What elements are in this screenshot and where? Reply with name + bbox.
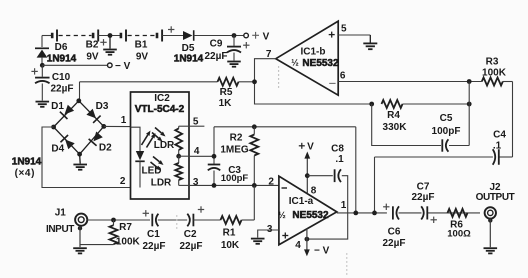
wire B2 internal dashed link	[59, 35, 92, 37]
node ground tap junction	[108, 33, 113, 38]
photoresistor LDR2	[178, 156, 180, 163]
svg-text:R2: R2	[230, 133, 243, 144]
svg-text:VTL-5C4-2: VTL-5C4-2	[135, 104, 185, 115]
capacitor C7	[426, 206, 428, 219]
wire IC1-b pin5 to ground	[338, 34, 370, 36]
svg-text:22µF: 22µF	[180, 241, 203, 252]
svg-text:½: ½	[291, 57, 299, 67]
node R4 left	[369, 102, 374, 107]
label IC1-b plus input	[329, 34, 335, 36]
node R7 junction	[111, 218, 116, 223]
wire bridge edge top-right	[79, 101, 104, 127]
svg-text:100K: 100K	[116, 236, 141, 247]
supply arrow +V pin8	[306, 159, 308, 194]
wire IC2 pin5 stub	[179, 125, 189, 127]
resistor R2	[253, 127, 255, 135]
svg-text:D1: D1	[51, 101, 64, 112]
wire pin5 net line	[214, 126, 356, 128]
svg-text:IC2: IC2	[154, 93, 170, 104]
svg-text:100pF: 100pF	[432, 126, 461, 137]
wire C8 to pin4	[307, 176, 348, 239]
svg-text:IC1-b: IC1-b	[301, 47, 326, 58]
wire R5 line	[80, 81, 218, 83]
diode D2	[93, 132, 102, 142]
svg-text:B1: B1	[135, 40, 148, 51]
svg-text:9V: 9V	[136, 52, 149, 63]
node R2 top	[252, 124, 257, 129]
svg-text:NE5532: NE5532	[302, 58, 339, 69]
svg-text:C4: C4	[493, 129, 506, 140]
svg-text:C9: C9	[210, 39, 223, 50]
svg-text:LDR: LDR	[154, 140, 175, 151]
svg-text:22µF: 22µF	[412, 192, 435, 203]
op-amp IC1-b	[276, 21, 338, 95]
ground C9	[227, 61, 241, 63]
svg-text:10K: 10K	[221, 240, 240, 251]
svg-text:.1: .1	[335, 154, 344, 165]
svg-text:1: 1	[341, 200, 347, 211]
node pin6 R3 junction	[467, 79, 472, 84]
node R5 pin7 junction	[252, 79, 257, 84]
resistor R3	[482, 78, 503, 86]
diode D6	[41, 36, 43, 48]
svg-text:1K: 1K	[219, 98, 233, 109]
capacitor C5	[441, 139, 443, 151]
node output feedback 2	[372, 211, 377, 216]
node D6 C10 junction	[40, 63, 45, 68]
label C7 + polarity	[431, 219, 437, 221]
diode D5	[183, 31, 193, 40]
svg-text:C5: C5	[440, 113, 453, 124]
wire R1 to pin2 node	[242, 219, 255, 221]
wire IC1-b pin7 path	[255, 59, 372, 104]
svg-text:D4: D4	[51, 144, 64, 155]
wire IC1-b pin6 line	[338, 81, 482, 83]
battery B1 cell 1	[120, 33, 123, 39]
svg-text:½: ½	[278, 210, 286, 220]
svg-text:C10: C10	[52, 72, 71, 83]
wire pin5 net to output	[355, 127, 357, 213]
wire bridge left to IC2 pin2 U-path	[42, 127, 131, 188]
supply arrow -V pin4	[306, 228, 308, 249]
resistor R7	[113, 220, 115, 225]
node R4 right	[467, 102, 472, 107]
svg-text:22µF: 22µF	[143, 241, 166, 252]
LED emission arrows	[142, 135, 148, 145]
jack J2	[485, 207, 496, 218]
svg-text:NE5532: NE5532	[292, 210, 329, 221]
diode D1	[65, 105, 75, 115]
label C10 + polarity	[31, 70, 37, 72]
svg-text:C6: C6	[388, 227, 401, 238]
wire pin3 line to IC1-a pin2	[189, 184, 279, 186]
node C3 bottom	[212, 183, 217, 188]
svg-text:R7: R7	[119, 222, 132, 233]
svg-text:R4: R4	[387, 110, 400, 121]
svg-text:2: 2	[120, 176, 126, 187]
wire R4C5 loop	[372, 104, 441, 146]
resistor R4	[382, 100, 403, 108]
battery B2 cell 2	[92, 33, 95, 39]
ground IC1-a pin3	[251, 238, 265, 240]
svg-text:LDR: LDR	[151, 178, 172, 189]
label +V pin8	[299, 145, 305, 147]
capacitor C10	[41, 65, 43, 77]
svg-text:8: 8	[311, 186, 317, 197]
ground battery midpoint	[109, 36, 111, 49]
svg-text:330K: 330K	[383, 122, 408, 133]
capacitor C3	[213, 127, 215, 164]
svg-text:2: 2	[268, 176, 274, 187]
label IC1-b minus input	[329, 82, 335, 84]
node C9 junction	[232, 33, 237, 38]
svg-text:(×4): (×4)	[15, 168, 35, 179]
wire IC2 pin4 stub	[179, 155, 189, 157]
wire IC1-a pin3 to ground	[258, 230, 279, 238]
svg-text:R5: R5	[220, 87, 233, 98]
capacitor C2	[192, 214, 194, 227]
wire LDR2 to pin3	[179, 184, 189, 186]
jack J1	[75, 214, 87, 226]
resistor R6	[448, 209, 468, 217]
node C3 top pin4	[212, 154, 217, 159]
label battery + polarity B1	[168, 29, 174, 31]
label IC1-a minus input	[282, 187, 288, 189]
LED inside IC2	[131, 127, 141, 151]
wire D5 to +V terminal	[194, 35, 244, 37]
battery B2 cell 1	[51, 33, 54, 39]
ground C10	[36, 101, 50, 103]
battery B1 cell 2	[156, 33, 159, 39]
wire bridge top feed	[79, 82, 81, 101]
svg-text:5: 5	[341, 23, 347, 34]
svg-text:− V: − V	[115, 61, 131, 72]
svg-text:3: 3	[193, 177, 199, 188]
svg-text:C1: C1	[147, 229, 160, 240]
node R2 bottom	[252, 183, 257, 188]
wire C1 to C2	[158, 219, 187, 221]
wire bridge edge bottom-right	[80, 126, 104, 154]
svg-text:4: 4	[194, 146, 200, 157]
wire C2 to R1	[193, 219, 220, 221]
ground IC1-b pin5	[369, 35, 371, 43]
node LDR junction pin4	[176, 154, 181, 159]
svg-text:1: 1	[121, 115, 127, 126]
wire bridge edge bottom-left	[54, 127, 80, 154]
node bridge bottom	[77, 152, 82, 157]
svg-text:R1: R1	[223, 227, 236, 238]
diode D4	[65, 140, 75, 150]
diode D3	[86, 109, 96, 119]
svg-text:C2: C2	[184, 229, 197, 240]
wire B1 to D5	[162, 35, 183, 37]
wire R3 to right rail	[503, 81, 513, 83]
wire R7 to ground	[80, 244, 114, 246]
wire input line	[87, 219, 150, 221]
capacitor C9	[233, 36, 235, 46]
wire output line	[337, 212, 387, 214]
svg-text:100K: 100K	[482, 68, 507, 79]
svg-text:D3: D3	[96, 101, 109, 112]
svg-text:C7: C7	[417, 181, 430, 192]
svg-text:9V: 9V	[86, 52, 99, 63]
terminal +V top	[244, 33, 249, 38]
capacitor C6	[392, 206, 394, 219]
label C1 + polarity	[143, 212, 149, 214]
svg-text:D5: D5	[182, 43, 195, 54]
ground J1	[78, 226, 82, 230]
svg-text:V: V	[307, 142, 314, 153]
terminal -V	[108, 63, 113, 68]
ground bridge bottom	[79, 154, 82, 163]
LDR1 light arrows	[155, 128, 162, 134]
svg-text:.1: .1	[493, 141, 502, 152]
svg-text:IC1-a: IC1-a	[289, 196, 314, 207]
wire -V line	[42, 64, 107, 66]
capacitor C1	[151, 214, 153, 227]
svg-text:C8: C8	[331, 144, 344, 155]
optocoupler IC2 box	[131, 92, 190, 199]
svg-text:D2: D2	[99, 143, 112, 154]
svg-text:22µF: 22µF	[383, 238, 406, 249]
LDR2 light arrows	[153, 157, 159, 162]
svg-text:1N914: 1N914	[174, 54, 204, 65]
resistor R5	[218, 78, 239, 86]
svg-text:D6: D6	[55, 42, 68, 53]
label IC1-a plus input	[282, 235, 288, 237]
label battery + polarity B2	[100, 41, 106, 43]
svg-text:22µF: 22µF	[51, 84, 74, 95]
svg-text:100pF: 100pF	[221, 173, 249, 184]
photoresistor LDR1	[178, 126, 180, 128]
node bridge top	[76, 98, 81, 103]
svg-text:− V: − V	[314, 245, 330, 256]
wire R4 right	[403, 103, 470, 105]
label C2 + polarity	[198, 209, 204, 211]
svg-text:B2: B2	[86, 40, 99, 51]
node C8 top junction	[305, 173, 310, 178]
ground J2	[488, 218, 492, 222]
node pin4 junction	[305, 237, 310, 242]
wire C4 to output node	[375, 156, 493, 158]
svg-text:22µF: 22µF	[205, 51, 228, 62]
svg-text:4: 4	[295, 240, 301, 251]
node bridge left	[51, 125, 56, 130]
svg-text:R3: R3	[486, 56, 499, 67]
resistor R1	[221, 216, 242, 224]
svg-text:1N914: 1N914	[12, 157, 42, 168]
svg-text:100Ω: 100Ω	[447, 229, 471, 240]
op-amp IC1-a	[279, 176, 337, 245]
svg-text:INPUT: INPUT	[46, 224, 74, 235]
label C9 + polarity	[243, 44, 249, 46]
svg-text:1N914: 1N914	[47, 53, 77, 64]
svg-text:5: 5	[193, 116, 199, 127]
wire B1 internal dashed link	[128, 35, 156, 37]
svg-text:J1: J1	[55, 208, 67, 219]
svg-text:6: 6	[340, 70, 346, 81]
wire bridge edge top-left	[54, 101, 79, 127]
svg-text:1MEG: 1MEG	[220, 144, 249, 155]
node output feedback 1	[353, 211, 358, 216]
wire B2 to ground tap	[98, 35, 121, 37]
scan artifacts (dotted crease)	[278, 66, 279, 67]
svg-text:OUTPUT: OUTPUT	[476, 192, 515, 203]
node bridge right	[101, 124, 106, 129]
svg-text:V: V	[263, 31, 270, 42]
capacitor C4	[498, 149, 500, 165]
wire bridge right to IC2 pin1	[104, 125, 131, 127]
capacitor C8	[307, 175, 333, 177]
wire +V rail left segment	[42, 35, 52, 37]
label C6 + polarity	[383, 206, 389, 208]
label +V top	[252, 34, 259, 36]
